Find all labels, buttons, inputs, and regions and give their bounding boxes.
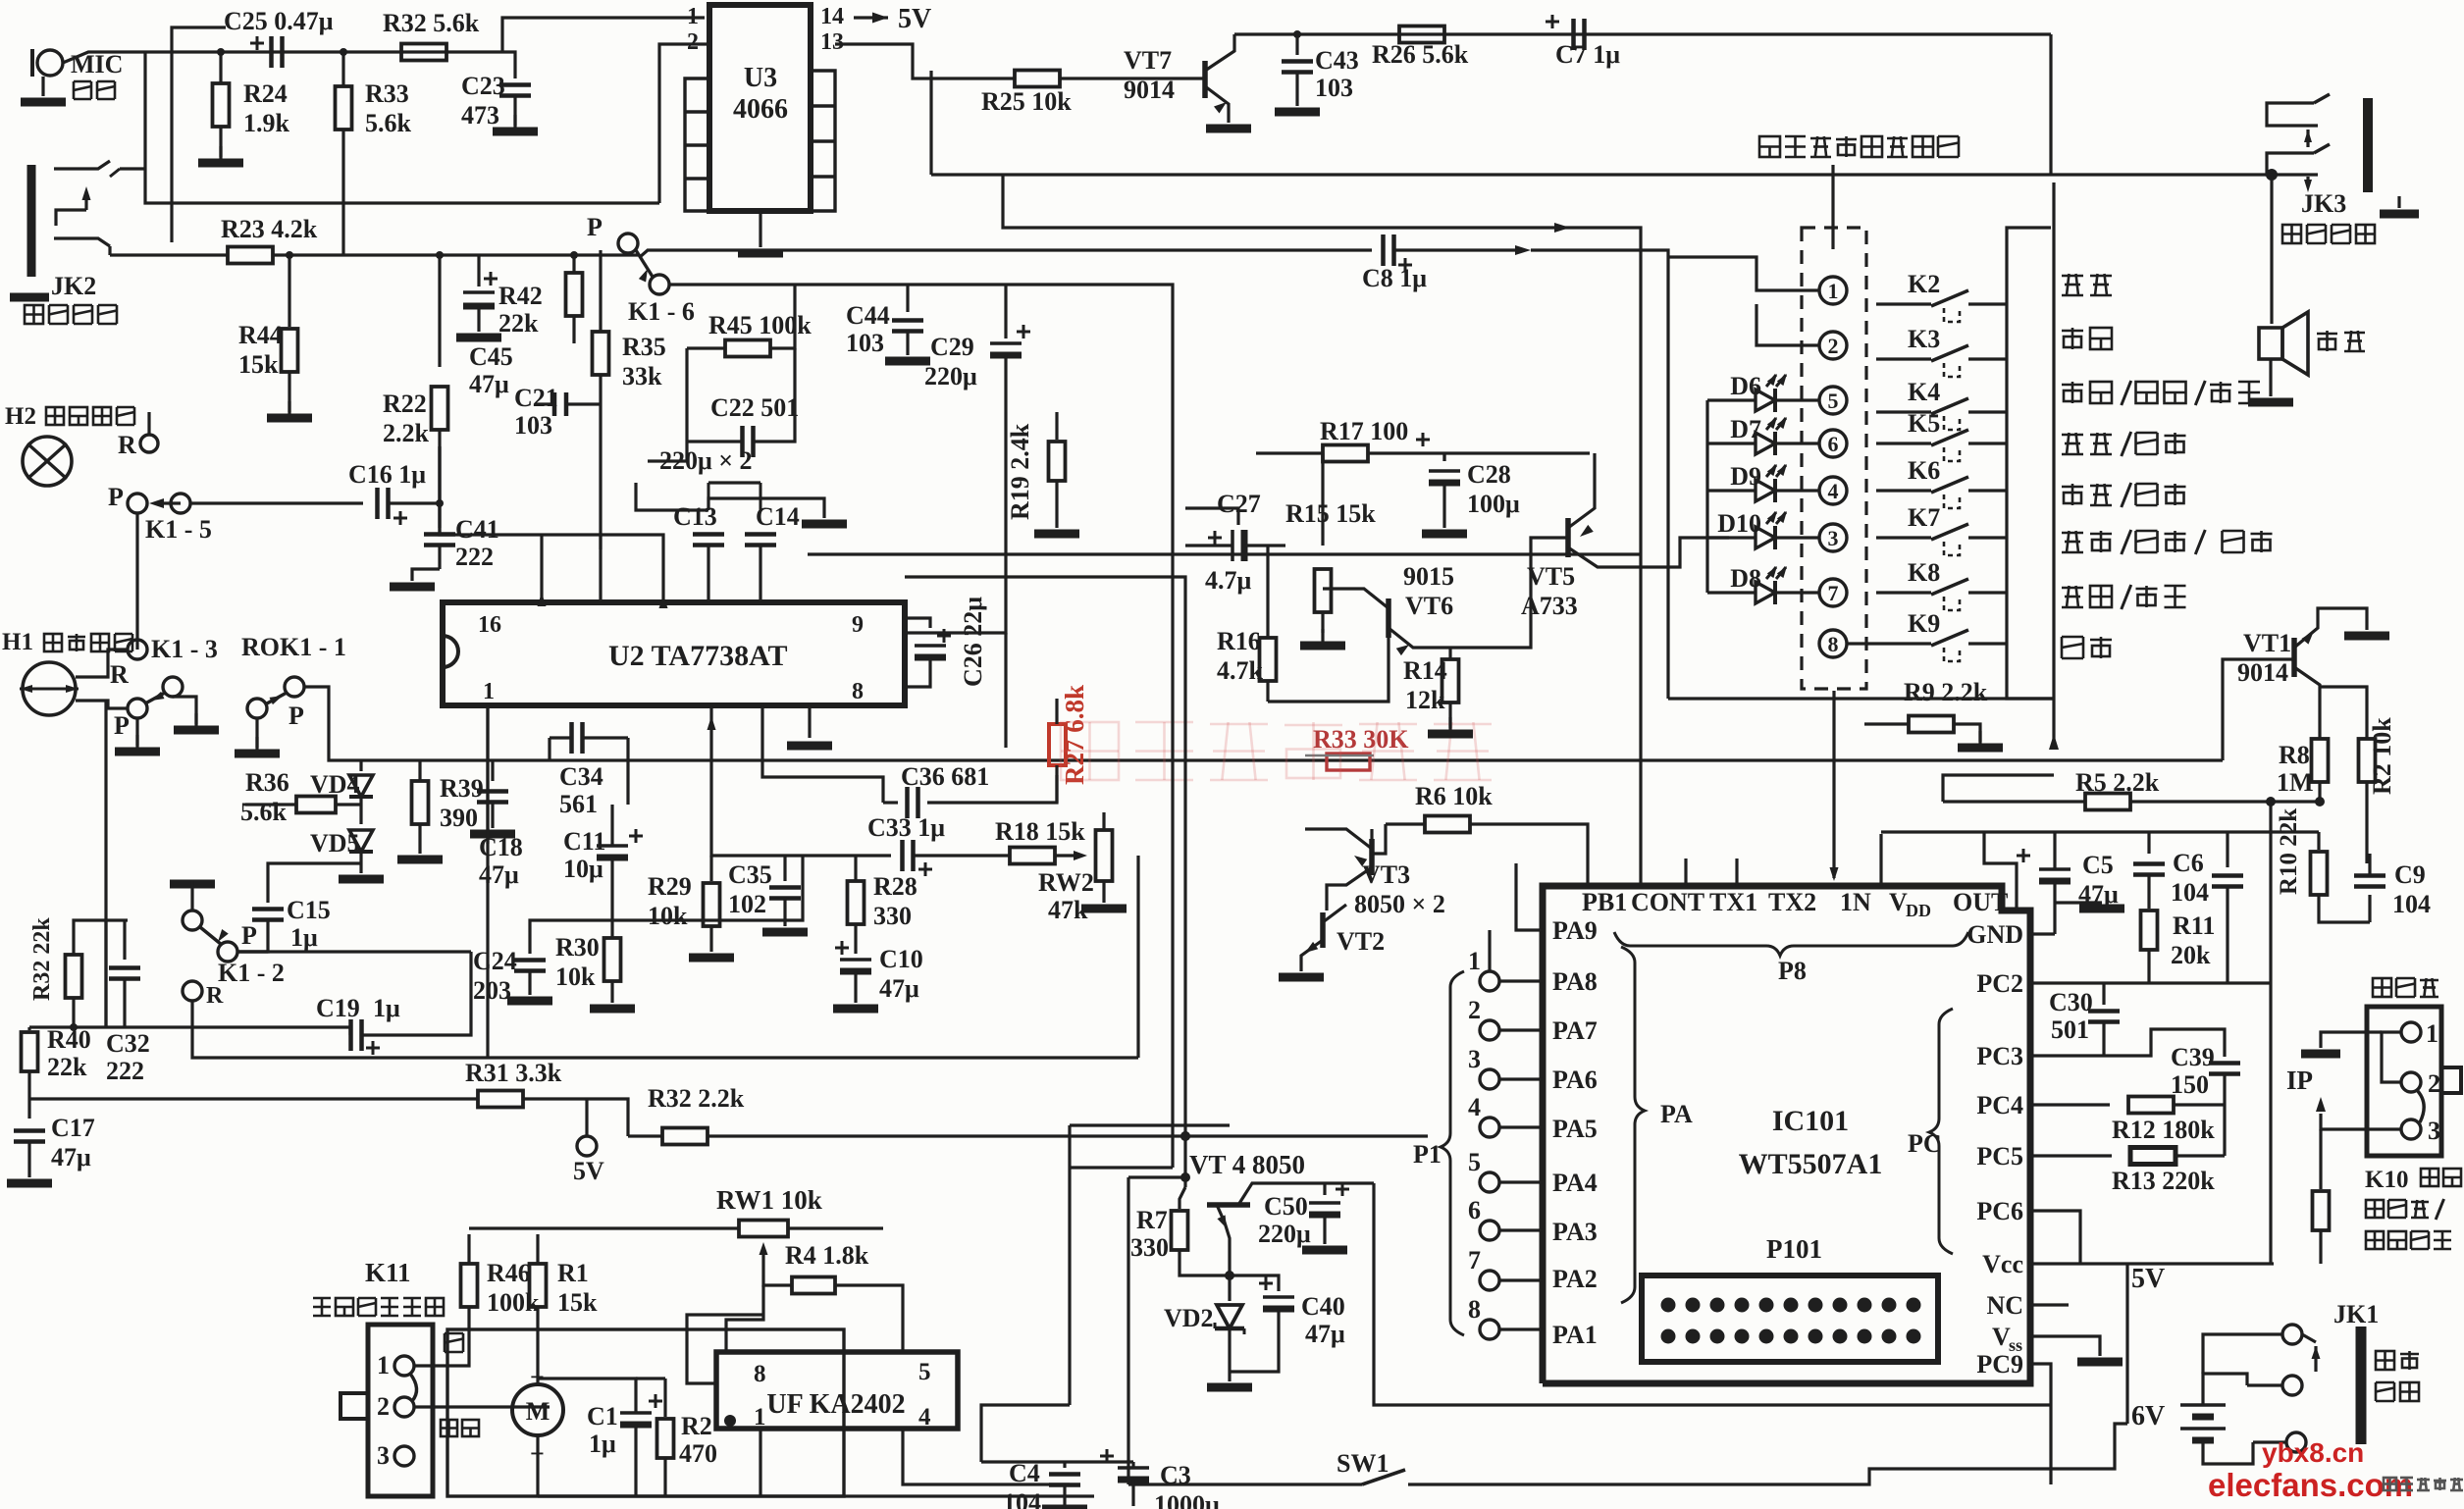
svg-text:4.7μ: 4.7μ	[1205, 566, 1252, 595]
resistor R32 22k (left)	[66, 955, 82, 998]
wire JK3 to speaker	[2270, 175, 2273, 324]
svg-text:SW1: SW1	[1337, 1449, 1389, 1478]
svg-text:K7: K7	[1908, 503, 1940, 532]
svg-text:R35: R35	[622, 333, 666, 361]
wire feedback row y872	[711, 854, 891, 856]
wire PC6 stub	[2030, 1211, 2080, 1264]
P101 pin row 2	[1661, 1329, 1676, 1344]
capacitor C7 1μ	[1546, 21, 1559, 24]
svg-text:R8: R8	[2279, 741, 2310, 769]
svg-text:100k: 100k	[487, 1288, 540, 1317]
svg-text:330: 330	[1130, 1233, 1169, 1262]
label 暂停	[2062, 637, 2112, 658]
svg-text:VT5: VT5	[1527, 562, 1575, 591]
svg-text:7: 7	[1828, 581, 1839, 605]
connector pin circle 6	[1819, 430, 1847, 457]
svg-text:C11: C11	[563, 827, 605, 856]
KA2402 dot	[724, 1415, 736, 1427]
resistor R28 330	[854, 856, 857, 881]
svg-text:P: P	[108, 483, 124, 511]
potentiometer RW2 47k	[1096, 830, 1113, 881]
svg-text:2: 2	[687, 29, 699, 55]
capacitor C8 1μ	[1381, 234, 1386, 266]
svg-text:1000μ: 1000μ	[1154, 1490, 1220, 1509]
svg-text:4.7k: 4.7k	[1217, 656, 1264, 685]
svg-text:1μ: 1μ	[290, 923, 318, 952]
label 高保真/	[2366, 1199, 2444, 1220]
svg-text:JK1: JK1	[2333, 1300, 2379, 1328]
svg-text:P: P	[288, 702, 304, 730]
svg-text:150: 150	[2171, 1070, 2209, 1099]
resistor R40 22k	[27, 1027, 30, 1030]
wire NC stub	[2030, 1303, 2069, 1306]
node R33 top	[340, 48, 347, 56]
svg-text:K1 - 5: K1 - 5	[145, 515, 212, 544]
K10 side tab	[2441, 1067, 2461, 1093]
svg-text:R28: R28	[873, 872, 917, 901]
svg-text:R26 5.6k: R26 5.6k	[1372, 40, 1469, 69]
wire RW1 to KA2402	[726, 1285, 763, 1354]
wire Vss ground	[2030, 1336, 2100, 1356]
U3 right pin cells	[811, 71, 835, 211]
pin stub TX2	[1735, 859, 1738, 886]
svg-text:R33: R33	[365, 79, 409, 108]
resistor R19 2.4k	[1055, 412, 1058, 440]
label 放音	[2062, 328, 2112, 349]
svg-text:4066: 4066	[733, 94, 788, 125]
svg-text:PC9: PC9	[1976, 1350, 2023, 1379]
svg-text:4: 4	[918, 1404, 931, 1431]
wire PC5 row	[2030, 1154, 2112, 1157]
K10 blade	[2416, 1089, 2424, 1122]
capacitor C32 222	[123, 920, 126, 960]
svg-text:C35: C35	[728, 860, 772, 889]
svg-text:R10 22k: R10 22k	[2276, 808, 2302, 895]
svg-text:6V: 6V	[2131, 1401, 2165, 1431]
svg-text:102: 102	[728, 890, 766, 918]
svg-text:C5: C5	[2082, 851, 2114, 879]
wire R5 left drop	[1943, 775, 2054, 802]
wire K bus top	[2007, 228, 2051, 304]
connector pin circle 3	[1819, 524, 1847, 551]
svg-text:C28: C28	[1467, 460, 1511, 489]
wire PC3 row	[2030, 1029, 2225, 1057]
svg-text:R27 6.8k: R27 6.8k	[1060, 685, 1089, 785]
wire battery bottom	[2203, 1440, 2253, 1464]
wire input box	[172, 27, 226, 242]
U3 left pin cells	[685, 78, 709, 211]
wire under U2 to C36	[762, 705, 883, 803]
svg-text:P: P	[241, 921, 257, 950]
wire K10 left column	[2269, 983, 2272, 1264]
label 放音/清除/自动	[2062, 381, 2260, 405]
bracket over C13 C14	[708, 498, 824, 518]
wire left bus	[145, 52, 659, 203]
svg-text:PA8: PA8	[1552, 967, 1598, 996]
svg-text:R: R	[206, 983, 224, 1009]
resistor R27 6.8k red	[1049, 724, 1066, 765]
svg-text:IP: IP	[2286, 1066, 2313, 1095]
svg-text:Vcc: Vcc	[1982, 1250, 2023, 1278]
svg-text:3: 3	[2428, 1117, 2440, 1145]
svg-text:1: 1	[377, 1351, 390, 1379]
wire bottom bus	[2049, 1405, 2052, 1484]
svg-text:15k: 15k	[238, 350, 279, 379]
svg-text:220μ × 2: 220μ × 2	[659, 446, 753, 475]
wire bus into VT4 area	[1006, 577, 1185, 1177]
brace PC	[1929, 1009, 1953, 1254]
svg-text:2.2k: 2.2k	[383, 419, 430, 447]
capacitor C3 1000μ	[1100, 1455, 1114, 1458]
svg-text:C21: C21	[514, 384, 558, 412]
node R24 top	[217, 48, 225, 56]
svg-text:P1: P1	[1413, 1140, 1442, 1169]
svg-text:C45: C45	[469, 342, 513, 371]
label 跟读/对比	[2062, 483, 2186, 507]
wire VT7 collector top	[1234, 32, 2051, 35]
svg-text:4: 4	[1828, 479, 1839, 503]
svg-text:C43: C43	[1315, 46, 1359, 75]
svg-text:3: 3	[1828, 526, 1839, 550]
wire U2 pin1 long drop	[486, 705, 489, 1058]
svg-text:R1: R1	[557, 1259, 589, 1287]
wire into U2 top left	[540, 535, 543, 602]
capacitor C44 103	[906, 285, 909, 312]
svg-text:R: R	[118, 431, 136, 459]
svg-text:222: 222	[106, 1057, 144, 1085]
connector pin circle 7	[1819, 579, 1847, 606]
connector pin circle 8	[1819, 630, 1847, 657]
svg-text:C34: C34	[559, 762, 603, 791]
svg-text:20k: 20k	[2171, 941, 2211, 969]
microphone MIC	[37, 50, 63, 76]
wire K11 pin2 normal	[414, 1405, 550, 1408]
P101 pin row 1	[1661, 1298, 1676, 1313]
resistor R44 15k	[288, 255, 290, 327]
capacitor C35 102	[783, 856, 786, 881]
ground C5	[2055, 901, 2102, 904]
wire led column	[1705, 400, 1708, 593]
motor M	[512, 1384, 563, 1435]
brace P8	[1614, 932, 1968, 956]
capacitor C5 47μ	[2017, 855, 2030, 858]
svg-text:PA5: PA5	[1552, 1115, 1598, 1143]
svg-text:C25 0.47μ: C25 0.47μ	[224, 7, 334, 35]
wire pin9 to right bus	[905, 412, 1006, 633]
svg-text:47μ: 47μ	[1305, 1320, 1345, 1348]
dashed connector box	[1802, 228, 1866, 689]
capacitor C41 222	[436, 499, 444, 507]
capacitor unnamed near PC2	[2226, 832, 2228, 867]
svg-text:PC3: PC3	[1976, 1042, 2023, 1070]
box around R45/C22	[648, 348, 687, 461]
ground under U3	[759, 211, 761, 247]
svg-text:R22: R22	[383, 390, 427, 418]
speaker 喇叭	[2259, 328, 2282, 359]
wire U2 top bus	[440, 446, 663, 549]
svg-text:104: 104	[2392, 890, 2431, 918]
svg-text:TX1: TX1	[1709, 888, 1757, 916]
wire y1190	[1070, 1166, 1173, 1169]
wire top rail bottom area	[469, 1226, 628, 1229]
svg-text:103: 103	[1315, 74, 1353, 102]
svg-text:R12 180k: R12 180k	[2112, 1116, 2215, 1144]
wire K1-2 net	[530, 856, 803, 932]
svg-text:1: 1	[687, 4, 699, 29]
svg-text:8050 × 2: 8050 × 2	[1354, 890, 1445, 918]
svg-text:UF KA2402: UF KA2402	[766, 1389, 905, 1420]
label 复读/暂停	[2062, 432, 2186, 456]
svg-text:9015: 9015	[1403, 562, 1454, 591]
svg-text:C8 1μ: C8 1μ	[1362, 264, 1427, 292]
wire U3 right to bus	[929, 71, 932, 175]
5V arrow from pin 14	[854, 16, 888, 19]
wire K10 pin1 net	[2382, 1032, 2401, 1082]
svg-text:K3: K3	[1908, 325, 1940, 353]
svg-text:1.9k: 1.9k	[243, 109, 290, 137]
wire 220u bracket	[636, 483, 708, 510]
svg-text:H1: H1	[2, 629, 33, 655]
svg-text:JK2: JK2	[51, 272, 96, 300]
svg-text:1: 1	[754, 1404, 766, 1431]
wire JK2 lower	[108, 246, 111, 255]
wire mid long y565	[808, 552, 1641, 555]
svg-text:7: 7	[1468, 1246, 1481, 1275]
wire JK1 top to 5V net	[2203, 1334, 2247, 1374]
wire feedback loop	[1136, 856, 1139, 1058]
svg-text:C39: C39	[2171, 1043, 2215, 1071]
IC U3 4066	[709, 5, 811, 211]
capacitor C29 220μ	[1004, 285, 1007, 338]
svg-text:R19 2.4k: R19 2.4k	[1006, 423, 1034, 520]
terminal 5V bottom left	[585, 1099, 588, 1136]
svg-text:PA6: PA6	[1552, 1066, 1598, 1094]
svg-text:C22 501: C22 501	[710, 393, 799, 422]
svg-text:3: 3	[377, 1441, 390, 1470]
capacitor C18 47μ	[491, 760, 494, 781]
switch K1-3	[128, 640, 147, 659]
wire Vcc row 5V	[2030, 1262, 2274, 1265]
svg-text:16: 16	[478, 612, 501, 638]
svg-text:RW2: RW2	[1038, 868, 1094, 897]
resistor R24 1.9k	[219, 52, 222, 83]
svg-text:5: 5	[1828, 389, 1839, 413]
wire U3 pin13 to R25	[835, 44, 1016, 78]
wire collector row VT4	[1070, 1123, 1230, 1126]
wire flat cable into box	[1831, 226, 1834, 249]
svg-text:R30: R30	[555, 933, 600, 962]
svg-text:C30: C30	[2049, 988, 2093, 1016]
svg-text:5: 5	[918, 1359, 931, 1385]
wire C27 top	[1185, 508, 1238, 525]
bottom bus R31 row	[29, 1097, 479, 1100]
wire bottom rail	[538, 1494, 1094, 1497]
capacitor C17 47μ	[27, 1099, 30, 1119]
svg-text:222: 222	[455, 543, 494, 571]
wire flat cable stub	[1831, 165, 1834, 226]
svg-text:VT 4 8050: VT 4 8050	[1189, 1150, 1305, 1179]
wire 5V drop	[2125, 1264, 2128, 1424]
wire battery top	[2203, 1374, 2247, 1405]
wire vt4 left box	[1128, 1175, 1185, 1178]
K11 blade	[410, 1374, 417, 1401]
pin stub 1N arrow	[1832, 691, 1835, 878]
svg-text:2: 2	[377, 1392, 390, 1421]
connector pin circle 5	[1819, 387, 1847, 414]
wire top bus to JK3	[2049, 34, 2052, 175]
svg-text:C14: C14	[756, 502, 800, 531]
svg-text:2: 2	[1468, 996, 1481, 1024]
wire K11 pin1 to R46	[414, 1307, 469, 1366]
svg-text:DD: DD	[1906, 901, 1931, 920]
svg-text:CONT: CONT	[1631, 888, 1704, 916]
svg-text:1: 1	[1828, 279, 1839, 303]
wire right bus down	[1004, 633, 1007, 748]
svg-text:K2: K2	[1908, 270, 1940, 298]
resistor R39 390	[412, 781, 429, 824]
svg-text:5: 5	[1468, 1148, 1481, 1176]
svg-text:104: 104	[1003, 1488, 1041, 1509]
svg-text:C40: C40	[1301, 1292, 1345, 1321]
capacitor C9 104	[2368, 895, 2371, 922]
wire K1-2 P row	[237, 950, 268, 953]
wire pin1 down	[759, 1429, 761, 1496]
svg-text:501: 501	[2051, 1015, 2089, 1044]
svg-text:R25 10k: R25 10k	[981, 87, 1072, 116]
wire P1-1 up	[1488, 930, 1491, 971]
watermark 电子发烧友	[2384, 1478, 2463, 1490]
svg-text:C33 1μ: C33 1μ	[867, 813, 945, 842]
wire C41 bus down to U2	[599, 535, 602, 549]
wire PC4 row	[2030, 1103, 2110, 1106]
wire KA2402 left loop	[687, 1315, 763, 1383]
svg-text:K8: K8	[1908, 558, 1940, 587]
svg-text:R13 220k: R13 220k	[2112, 1167, 2215, 1195]
svg-text:22k: 22k	[47, 1053, 87, 1081]
label 提取/选段	[2062, 585, 2186, 609]
wire VT4 collector right	[1374, 1183, 2051, 1405]
svg-text:5V: 5V	[898, 4, 931, 34]
svg-text:1M: 1M	[2277, 768, 2314, 797]
svg-text:RW1 10k: RW1 10k	[716, 1185, 822, 1215]
svg-text:6: 6	[1828, 432, 1839, 456]
lower mid bus y712	[1668, 697, 2054, 700]
wire H1 down	[104, 701, 107, 1027]
svg-text:R39: R39	[440, 774, 484, 803]
wire R44 junction	[286, 251, 293, 259]
pin stub PB1	[1470, 824, 1588, 886]
svg-text:47μ: 47μ	[469, 370, 509, 398]
svg-text:IC101: IC101	[1772, 1105, 1849, 1137]
svg-text:MIC: MIC	[71, 50, 123, 78]
K10 contact 3	[2401, 1119, 2421, 1139]
wire record bus y255 with C8	[640, 250, 1372, 257]
svg-text:5.6k: 5.6k	[365, 109, 412, 137]
svg-text:K1 - 2: K1 - 2	[218, 959, 285, 987]
resistor R42 22k body	[570, 251, 578, 259]
svg-text:C36 681: C36 681	[901, 762, 989, 791]
motor box	[447, 1329, 844, 1496]
wire H1 bus down	[104, 920, 107, 1027]
resistor R8 1M	[2312, 739, 2329, 782]
wire VT5 base left	[1472, 538, 1568, 648]
svg-text:C18: C18	[479, 833, 523, 861]
wire ROK1-1 right	[304, 687, 1060, 760]
wire mic output	[63, 52, 502, 63]
svg-text:C50: C50	[1264, 1192, 1308, 1221]
wire R27 leads	[1055, 699, 1058, 724]
wire K right bus	[2007, 304, 2054, 699]
label 复读	[2062, 274, 2112, 295]
label 回放/暂停/ 对比	[2062, 530, 2273, 554]
capacitor C28 100μ	[1416, 439, 1430, 442]
wire motor top rail	[536, 1379, 539, 1384]
svg-text:R31 3.3k: R31 3.3k	[465, 1059, 562, 1087]
svg-text:R42: R42	[498, 282, 543, 310]
label 八芯扁平电缆连接	[1759, 136, 1959, 157]
IC IC101 WT5507A1	[1543, 886, 2030, 1383]
capacitor C26 22μ	[905, 618, 930, 628]
wire C4 top	[981, 1460, 1133, 1463]
wire long bus y178	[931, 173, 2272, 176]
svg-text:561: 561	[559, 790, 598, 818]
svg-text:K1 - 6: K1 - 6	[628, 297, 695, 326]
svg-text:203: 203	[473, 976, 511, 1005]
svg-text:C29: C29	[930, 333, 974, 361]
svg-text:1: 1	[483, 679, 495, 704]
svg-text:U3: U3	[744, 63, 777, 93]
capacitor C10 47μ	[835, 947, 849, 950]
svg-text:C7 1μ: C7 1μ	[1555, 40, 1620, 69]
svg-text:R32 22k: R32 22k	[29, 917, 55, 1001]
svg-text:R32 5.6k: R32 5.6k	[383, 9, 480, 37]
wire VT3 collector	[1370, 829, 1373, 856]
svg-text:C41: C41	[455, 515, 499, 544]
svg-text:100μ: 100μ	[1467, 490, 1520, 518]
svg-text:K10: K10	[2365, 1167, 2408, 1193]
pin stub VDD	[1879, 834, 1882, 886]
svg-text:P8: P8	[1778, 957, 1807, 985]
svg-text:ybx8.cn: ybx8.cn	[2262, 1437, 2364, 1468]
wire C34 branch	[548, 738, 550, 760]
svg-text:JK3: JK3	[2301, 189, 2346, 218]
wire C28 top	[1442, 453, 1445, 461]
capacitor C40 47μ	[1259, 1282, 1273, 1285]
svg-text:1μ: 1μ	[373, 994, 400, 1022]
vertical x1195 lower	[1171, 554, 1174, 1168]
ground under speaker	[2269, 359, 2272, 396]
svg-text:R36: R36	[245, 768, 289, 797]
wire to U3 pin1	[502, 18, 705, 52]
K10 contact 1	[2401, 1022, 2421, 1042]
svg-text:10k: 10k	[555, 963, 596, 991]
switch box K10 高保真	[2373, 978, 2438, 997]
IC U2 TA7738AT	[443, 602, 905, 705]
svg-text:GND: GND	[1966, 920, 2023, 949]
capacitor C45 47μ with resistor R42 22k	[477, 255, 480, 286]
svg-text:10k: 10k	[648, 902, 688, 930]
wire K1-6 bus y290	[669, 285, 1173, 554]
label 正常	[441, 1420, 479, 1436]
wire K1-5 to C16	[190, 501, 363, 504]
svg-text:ROK1 - 1: ROK1 - 1	[241, 633, 346, 661]
connector pin circle 2	[1819, 332, 1847, 359]
connector pin circle 1	[1819, 277, 1847, 304]
arrow up into U2 bottom	[709, 705, 712, 854]
svg-text:K1 - 3: K1 - 3	[151, 635, 218, 663]
svg-text:VT6: VT6	[1405, 592, 1453, 620]
svg-text:390: 390	[440, 804, 478, 832]
